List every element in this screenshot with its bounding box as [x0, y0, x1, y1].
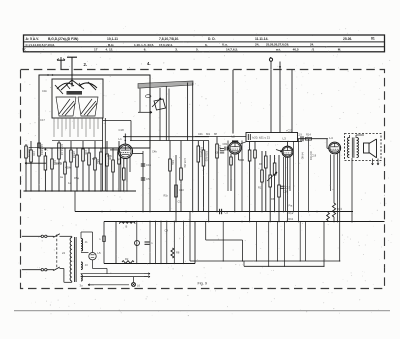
- svg-text:R2: R2: [125, 257, 129, 261]
- svg-text:45W: 45W: [65, 166, 71, 170]
- svg-text:C19: C19: [297, 132, 302, 136]
- svg-text:6.: 6.: [205, 43, 208, 47]
- svg-text:3u: 3u: [80, 284, 83, 288]
- svg-text:8H: 8H: [214, 133, 217, 136]
- svg-text:81: 81: [371, 37, 375, 41]
- svg-text:24: 24: [62, 251, 65, 255]
- svg-text:C: (1,14,10),5,(7,10),6,: C: (1,14,10),5,(7,10),6,: [26, 43, 56, 47]
- svg-text:L1: L1: [119, 137, 123, 141]
- svg-text:J3: J3: [85, 263, 88, 267]
- svg-text:R14: R14: [306, 133, 311, 137]
- svg-text:B: B: [126, 225, 128, 229]
- svg-text:10,1-11: 10,1-11: [107, 37, 118, 41]
- svg-text:/1: /1: [312, 47, 315, 51]
- svg-text:U.a.: U.a.: [222, 43, 228, 47]
- svg-text:R5a: R5a: [74, 176, 79, 180]
- svg-text:C8b: C8b: [223, 143, 228, 146]
- svg-text:17: 17: [94, 48, 98, 52]
- svg-text:14,7,6,5.: 14,7,6,5.: [226, 47, 238, 51]
- svg-text:J1: J1: [85, 240, 88, 244]
- svg-text:L3: L3: [283, 137, 287, 141]
- svg-text:1.10. L.5. 23,5.: 1.10. L.5. 23,5.: [134, 43, 154, 47]
- svg-text:R1b: R1b: [289, 218, 294, 221]
- svg-text:A4-MΩ: A4-MΩ: [301, 152, 304, 159]
- svg-text:C5: C5: [146, 177, 150, 181]
- svg-text:25,26,26,27,6,G6.: 25,26,26,27,6,G6.: [266, 43, 289, 47]
- svg-text:b20, b21 y 21: b20, b21 y 21: [253, 136, 271, 140]
- svg-text:L4: L4: [329, 136, 333, 140]
- svg-text:24,: 24,: [255, 43, 259, 47]
- svg-text:3.: 3.: [175, 48, 178, 52]
- svg-text:4.: 4.: [147, 61, 151, 66]
- svg-text:A: 5 A.V.: A: 5 A.V.: [26, 37, 40, 41]
- svg-text:B.H.: B.H.: [108, 43, 114, 47]
- svg-text:C1b: C1b: [42, 89, 47, 93]
- svg-text:C4b: C4b: [152, 150, 157, 154]
- svg-text:+C22: +C22: [286, 128, 293, 132]
- svg-text:5.: 5.: [196, 48, 199, 52]
- svg-text:A1-A3/R1: A1-A3/R1: [40, 144, 44, 156]
- svg-text:D. D.: D. D.: [208, 37, 216, 41]
- svg-text:24.: 24.: [310, 43, 314, 47]
- svg-text:11.11.14.: 11.11.14.: [255, 37, 268, 41]
- svg-text:Pta: Pta: [289, 204, 293, 207]
- svg-text:C03: C03: [32, 151, 36, 156]
- svg-text:25.26.: 25.26.: [343, 37, 352, 41]
- svg-text:L5: L5: [98, 251, 102, 255]
- svg-text:C15: C15: [146, 163, 151, 167]
- svg-text:R03-R05: R03-R05: [205, 151, 209, 162]
- svg-text:R6: R6: [259, 162, 263, 166]
- svg-text:40,5: 40,5: [293, 47, 299, 51]
- svg-text:C19: C19: [312, 155, 317, 158]
- svg-text:7,8,10,7/8,10.: 7,8,10,7/8,10.: [159, 37, 179, 41]
- svg-text:R01/R02: R01/R02: [200, 147, 204, 158]
- svg-text:R7/A1-A3: R7/A1-A3: [60, 144, 64, 156]
- svg-text:B,G,D,(27a),(D F3N): B,G,D,(27a),(D F3N): [48, 37, 78, 41]
- svg-text:R8: R8: [176, 251, 180, 255]
- svg-text:17,U,22,4.: 17,U,22,4.: [159, 43, 173, 47]
- svg-text:w.t.: w.t.: [275, 47, 281, 51]
- svg-text:M.: M.: [338, 47, 342, 51]
- svg-text:6.: 6.: [144, 48, 147, 52]
- svg-text:C17: C17: [40, 118, 45, 122]
- svg-text:C10: C10: [179, 188, 184, 192]
- svg-text:A/R5-MΩ: A/R5-MΩ: [183, 158, 186, 168]
- svg-text:C0b: C0b: [198, 133, 203, 136]
- svg-text:C4: C4: [165, 229, 169, 233]
- svg-text:L6: L6: [137, 283, 140, 287]
- svg-text:R9a: R9a: [171, 160, 175, 165]
- svg-text:4. 12.: 4. 12.: [106, 48, 114, 52]
- svg-text:9Fb: 9Fb: [107, 154, 112, 158]
- svg-text:L2: L2: [232, 135, 236, 139]
- svg-text:2.: 2.: [84, 62, 88, 67]
- svg-text:C18: C18: [119, 128, 125, 132]
- svg-text:D:: D:: [23, 48, 26, 52]
- svg-text:5WD: 5WD: [56, 162, 62, 166]
- svg-text:R01-R02: R01-R02: [309, 151, 311, 161]
- svg-text:R12: R12: [258, 187, 263, 190]
- svg-text:801: 801: [206, 133, 211, 136]
- svg-text:R1b: R1b: [164, 195, 169, 198]
- svg-text:Fig. 9: Fig. 9: [198, 282, 208, 286]
- svg-text:C11: C11: [178, 201, 183, 204]
